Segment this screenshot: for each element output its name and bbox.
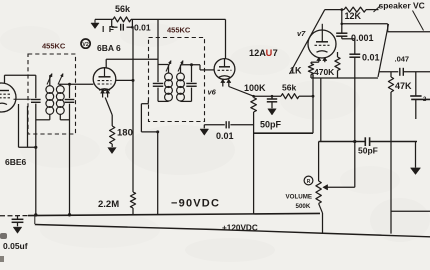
svg-text:6BE6: 6BE6 [5,157,27,167]
svg-text:.047: .047 [395,55,410,64]
svg-text:47K: 47K [395,81,412,91]
svg-text:455KC: 455KC [167,26,191,35]
svg-text:6BA 6: 6BA 6 [97,43,121,53]
svg-text:100K: 100K [244,83,266,93]
svg-text:1K: 1K [290,66,302,76]
svg-text:500K: 500K [296,203,311,210]
svg-text:50pF: 50pF [358,146,378,156]
svg-text:50pF: 50pF [260,120,282,130]
svg-text:12K: 12K [345,11,362,21]
svg-text:speaker VC: speaker VC [379,1,425,11]
svg-text:470K: 470K [314,67,335,77]
svg-text:2.2M: 2.2M [98,199,119,210]
svg-text:−90VDC: −90VDC [171,198,220,210]
svg-text:0.05uf: 0.05uf [3,241,28,251]
svg-text:R: R [307,179,311,185]
svg-text:V2: V2 [82,42,88,48]
svg-text:v6: v6 [208,88,217,97]
svg-text:0.01: 0.01 [134,23,151,33]
svg-text:0.01: 0.01 [362,53,380,63]
svg-text:0.01: 0.01 [216,131,234,141]
svg-text:VOLUME: VOLUME [286,194,312,201]
svg-text:56k: 56k [282,83,296,93]
svg-text:U: U [266,48,273,58]
svg-text:+120VDC: +120VDC [222,223,258,232]
svg-text:7: 7 [273,48,278,58]
svg-text:I F: I F [102,24,115,34]
svg-text:v7: v7 [297,29,306,38]
svg-text:12A: 12A [249,48,266,58]
svg-text:56k: 56k [115,4,131,14]
svg-text:180: 180 [117,128,133,139]
svg-text:455KC: 455KC [42,42,66,51]
